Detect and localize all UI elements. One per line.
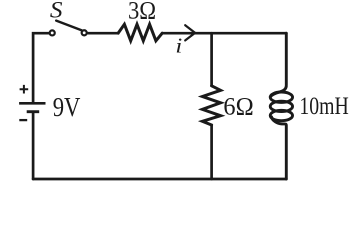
switch S left terminal circle: [50, 30, 55, 35]
wire from switch to resistor R1: [88, 32, 118, 35]
label 3 ohm: [128, 0, 156, 25]
wire left below battery: [32, 113, 35, 179]
battery minus sign: [19, 119, 27, 121]
svg-text:9V: 9V: [53, 93, 81, 122]
label 10mH: [299, 92, 348, 120]
inductor loop 3: [270, 110, 292, 120]
switch S blade: [56, 21, 81, 31]
switch S right terminal circle: [82, 30, 87, 35]
battery plus sign: [20, 85, 29, 94]
battery V1 long plate (+): [19, 102, 45, 105]
wire below 6ohm to bottom: [210, 125, 213, 179]
wire from resistor to top-right corner: [162, 32, 286, 35]
inductor L1 coil with right branch wires: [270, 33, 286, 97]
svg-text:3Ω: 3Ω: [128, 0, 156, 25]
battery V1 short plate (-): [27, 110, 40, 113]
wire bottom: [33, 178, 286, 181]
label 9V: [53, 93, 81, 122]
wire top-left stub and left corner: [33, 33, 49, 102]
inductor exit hook and wire to bottom: [272, 117, 287, 179]
resistor R2 6ohm zigzag: [202, 86, 220, 125]
svg-text:6Ω: 6Ω: [223, 93, 253, 121]
inductor loop 2: [270, 101, 292, 111]
label S (switch): [50, 0, 63, 23]
label i (current): [175, 34, 182, 58]
svg-text:S: S: [50, 0, 63, 23]
node junction top of 6ohm branch / wire down: [210, 33, 213, 86]
svg-text:i: i: [175, 34, 182, 58]
label 6 ohm: [223, 93, 253, 121]
svg-text:10mH: 10mH: [299, 92, 348, 120]
current arrow i: [185, 25, 195, 40]
resistor R1 3ohm zigzag: [118, 24, 162, 41]
inductor loop 1: [270, 92, 292, 102]
